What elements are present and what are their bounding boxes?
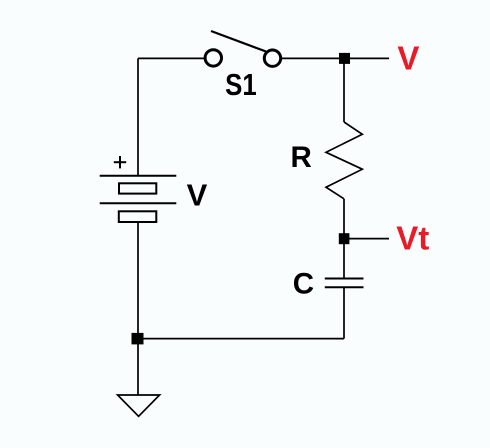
wire left rail battery top [137, 58, 139, 175]
wire battery bottom to junction [137, 222, 139, 339]
ground [118, 395, 160, 416]
wire right rail to resistor [343, 58, 345, 122]
capacitor C [325, 279, 364, 288]
junction node bottom [132, 333, 144, 345]
svg-text:Vt: Vt [396, 219, 429, 256]
node V junction [339, 53, 350, 64]
switch S1 [205, 31, 281, 66]
wire top-left from left rail to switch [138, 57, 204, 59]
resistor R [326, 122, 362, 199]
svg-text:S1: S1 [225, 67, 257, 102]
wire bottom [138, 338, 344, 340]
node Vt stub wire [344, 238, 389, 240]
svg-text:R: R [291, 141, 312, 174]
node Vt junction [339, 233, 350, 244]
wire from switch right contact to node V [282, 57, 389, 59]
battery V [100, 176, 177, 222]
wire capacitor to bottom [343, 287, 345, 338]
svg-text:V: V [397, 40, 419, 77]
svg-text:C: C [293, 268, 314, 301]
wire junction to ground [137, 344, 139, 395]
wire resistor to capacitor [343, 199, 345, 279]
battery plus sign [114, 156, 126, 168]
svg-text:V: V [187, 178, 208, 213]
